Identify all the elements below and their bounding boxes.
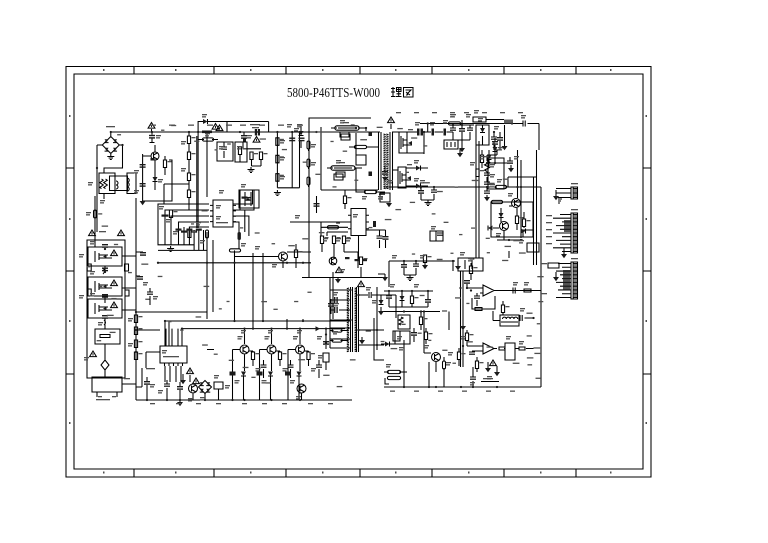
svg-text:5800-P46TTS-W000: 5800-P46TTS-W000: [287, 85, 380, 100]
